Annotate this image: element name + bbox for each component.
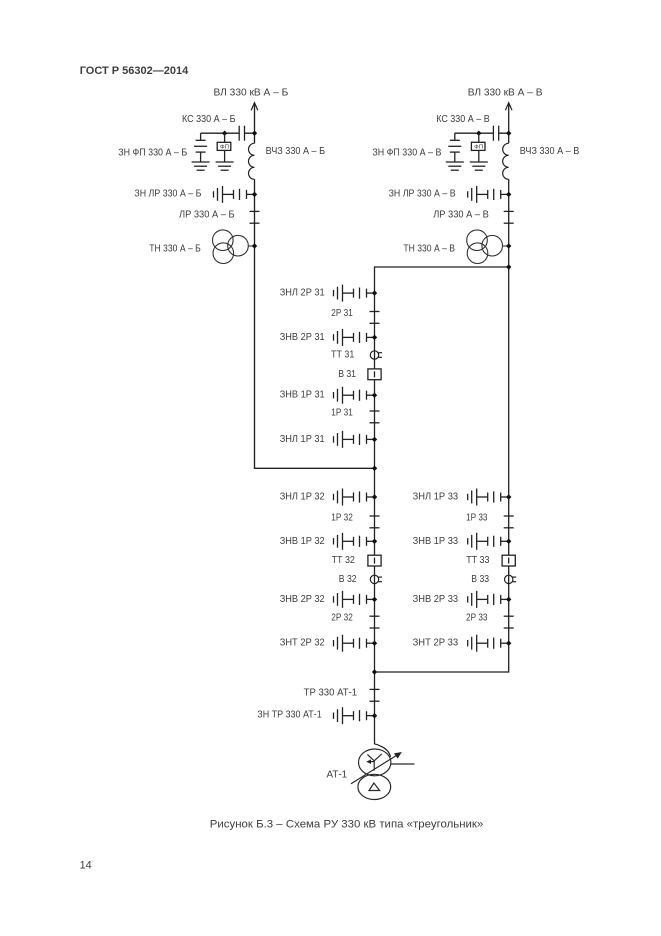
- svg-text:ТР 330 АТ-1: ТР 330 АТ-1: [304, 687, 358, 698]
- inductor ВЧЗ 330 А-Б: [249, 143, 255, 179]
- svg-text:ЗН ФП 330 А – В: ЗН ФП 330 А – В: [372, 147, 441, 158]
- current transformer ТТ 32 box: [368, 555, 381, 566]
- disconnector 1Р 32: [370, 516, 380, 528]
- disconnector 2Р 31: [370, 312, 380, 324]
- svg-text:ЗНВ 1Р 33: ЗНВ 1Р 33: [413, 536, 459, 547]
- node line А-Б top: [252, 131, 257, 136]
- node ЗНВ 2Р 33: [506, 597, 511, 602]
- arrow line А-Б: [251, 103, 258, 111]
- breaker В 33 circle: [505, 575, 517, 583]
- svg-text:1Р 32: 1Р 32: [331, 513, 353, 524]
- node ЗНВ 2Р 32: [372, 597, 377, 602]
- svg-text:В 33: В 33: [471, 574, 489, 585]
- node ЗНВ 1Р 33: [506, 539, 511, 544]
- svg-text:ЛР 330 А – Б: ЛР 330 А – Б: [179, 210, 235, 221]
- svg-text:ВЛ 330 кВ А – Б: ВЛ 330 кВ А – Б: [214, 88, 289, 99]
- capacitor КС 330 А-В branch: [455, 126, 509, 141]
- voltage transformer ТН 330 А-Б: [213, 230, 255, 264]
- arrowhead on regulation diagonal: [394, 752, 402, 759]
- disconnector 2Р 32: [370, 616, 380, 628]
- voltage transformer ТН 330 А-В: [467, 230, 509, 264]
- capacitor КС 330 А-Б branch: [201, 126, 255, 141]
- earthing switch ЗНВ 1Р 31: [334, 387, 375, 404]
- svg-text:ТН 330 А – В: ТН 330 А – В: [403, 244, 455, 255]
- node junction КС А-В: [476, 131, 481, 136]
- node junction bottom bus: [372, 669, 377, 674]
- node ЗНЛ 1Р 31: [372, 437, 377, 442]
- svg-text:14: 14: [80, 860, 92, 872]
- svg-text:Рисунок Б.3 – Схема РУ 330 кВ: Рисунок Б.3 – Схема РУ 330 кВ типа «треу…: [210, 819, 484, 831]
- svg-text:ЗНЛ 1Р 32: ЗНЛ 1Р 32: [280, 492, 325, 503]
- svg-text:ЗНВ 1Р 31: ЗНВ 1Р 31: [280, 390, 325, 401]
- svg-text:ТН 330 А – Б: ТН 330 А – Б: [149, 244, 201, 255]
- svg-text:ВЛ 330 кВ А – В: ВЛ 330 кВ А – В: [468, 88, 543, 99]
- node junction КС А-Б: [222, 131, 227, 136]
- filter box ФП А-В: [471, 133, 485, 162]
- svg-text:ЗНТ 2Р 33: ЗНТ 2Р 33: [413, 638, 459, 649]
- node ТН А-В: [506, 243, 511, 248]
- disconnector 1Р 31: [370, 411, 380, 423]
- node bus top right: [506, 264, 511, 269]
- svg-text:АТ-1: АТ-1: [327, 770, 348, 781]
- svg-text:ВЧЗ 330 А – Б: ВЧЗ 330 А – Б: [266, 146, 326, 157]
- breaker В 31: [368, 369, 381, 380]
- disconnector ЛР 330 А-Б: [250, 211, 260, 223]
- wire: right line ВЛ А-В: [375, 103, 509, 672]
- node ЗН ЛР А-Б: [252, 192, 257, 197]
- svg-text:В 31: В 31: [338, 369, 356, 380]
- earthing switch ЗНЛ 1Р 31: [334, 431, 375, 448]
- svg-text:ЗНВ 2Р 32: ЗНВ 2Р 32: [280, 594, 325, 605]
- svg-text:2Р 32: 2Р 32: [331, 613, 353, 624]
- node ЗНЛ 1Р 33: [506, 494, 511, 499]
- disconnector ЛР 330 А-В: [504, 211, 514, 223]
- capacitor stack ЗН ФП А-Б: [194, 133, 207, 162]
- ground under capacitor stack А-Б: [192, 162, 210, 170]
- current transformer ТТ 31: [370, 351, 382, 359]
- current transformer ТТ 33 box: [502, 555, 515, 566]
- wire: left line ВЛ А-Б: [255, 103, 375, 469]
- earthing switch ЗНТ 2Р 32: [334, 635, 375, 652]
- svg-text:2Р 31: 2Р 31: [331, 308, 353, 319]
- svg-text:ЛР 330 А – В: ЛР 330 А – В: [433, 210, 489, 221]
- earthing switch ЗНТ 2Р 33: [468, 635, 509, 652]
- earthing switch ЗН ТР 330 АТ-1: [334, 707, 375, 724]
- earthing switch ЗНВ 2Р 31: [334, 329, 375, 346]
- svg-text:2Р 33: 2Р 33: [466, 613, 488, 624]
- svg-text:ФП: ФП: [220, 144, 229, 150]
- earthing switch ЗНВ 1Р 32: [334, 533, 375, 550]
- filter box ФП А-Б: [217, 133, 231, 162]
- earthing switch ЗНВ 2Р 32: [334, 591, 375, 608]
- inductor ВЧЗ 330 А-В: [503, 143, 509, 179]
- svg-text:ТТ 33: ТТ 33: [466, 555, 490, 566]
- earthing switch ЗНЛ 1Р 32: [334, 489, 375, 506]
- node ЗНЛ 1Р 32: [372, 494, 377, 499]
- svg-text:ЗНЛ 1Р 33: ЗНЛ 1Р 33: [413, 492, 459, 503]
- svg-text:ЗН ЛР 330 А – В: ЗН ЛР 330 А – В: [389, 188, 456, 199]
- svg-text:ЗНВ 2Р 31: ЗНВ 2Р 31: [280, 332, 325, 343]
- autotransformer АТ-1: [351, 744, 415, 800]
- svg-text:ФП: ФП: [474, 144, 483, 150]
- earthing switch ЗН ЛР 330 А-В: [468, 186, 509, 203]
- wire: middle bus: [375, 267, 509, 744]
- svg-text:ЗНВ 1Р 32: ЗНВ 1Р 32: [280, 536, 325, 547]
- node ТН А-Б: [252, 243, 257, 248]
- svg-text:ЗН ТР 330 АТ-1: ЗН ТР 330 АТ-1: [257, 709, 322, 720]
- svg-text:ТТ 31: ТТ 31: [331, 350, 355, 361]
- svg-text:ЗН ЛР 330 А – Б: ЗН ЛР 330 А – Б: [134, 188, 201, 199]
- node junction left branch joins bus: [372, 466, 377, 471]
- svg-text:ЗНТ 2Р 32: ЗНТ 2Р 32: [280, 638, 325, 649]
- node ЗНВ 2Р 31: [372, 335, 377, 340]
- ground under ФП box А-В: [470, 162, 488, 170]
- capacitor stack ЗН ФП А-В: [448, 133, 461, 162]
- svg-text:ВЧЗ 330 А – В: ВЧЗ 330 А – В: [520, 146, 580, 157]
- node ЗНЛ 2Р 31: [372, 290, 377, 295]
- node ЗН ТР 330 АТ-1: [372, 713, 377, 718]
- svg-text:ЗНЛ 2Р 31: ЗНЛ 2Р 31: [280, 288, 325, 299]
- svg-text:ГОСТ Р 56302—2014: ГОСТ Р 56302—2014: [80, 65, 189, 77]
- disconnector ТР 330 АТ-1: [370, 689, 380, 701]
- svg-text:ТТ 32: ТТ 32: [332, 555, 356, 566]
- svg-text:1Р 33: 1Р 33: [466, 513, 488, 524]
- svg-text:В 32: В 32: [339, 574, 357, 585]
- breaker В 32 circle: [370, 575, 382, 583]
- earthing switch ЗНЛ 1Р 33: [468, 489, 509, 506]
- disconnector 2Р 33: [504, 616, 514, 628]
- node ЗНТ 2Р 32: [372, 641, 377, 646]
- node line А-В top: [506, 131, 511, 136]
- disconnector 1Р 33: [504, 516, 514, 528]
- small arrow in star winding: [366, 759, 371, 764]
- svg-text:ЗН ФП 330 А – Б: ЗН ФП 330 А – Б: [118, 147, 187, 158]
- ground under ФП box А-Б: [216, 162, 234, 170]
- earthing switch ЗНВ 2Р 33: [468, 591, 509, 608]
- earthing switch ЗНВ 1Р 33: [468, 533, 509, 550]
- node ЗНВ 1Р 32: [372, 539, 377, 544]
- node ЗНВ 1Р 31: [372, 393, 377, 398]
- svg-text:КС 330 А – Б: КС 330 А – Б: [182, 114, 236, 125]
- svg-text:1Р 31: 1Р 31: [331, 408, 353, 419]
- arrow line А-В: [505, 103, 512, 111]
- node ЗНТ 2Р 33: [506, 641, 511, 646]
- svg-text:ЗНЛ 1Р 31: ЗНЛ 1Р 31: [280, 434, 325, 445]
- ground under capacitor stack А-В: [446, 162, 464, 170]
- earthing switch ЗНЛ 2Р 31: [334, 285, 375, 302]
- svg-text:КС 330 А – В: КС 330 А – В: [436, 114, 490, 125]
- earthing switch ЗН ЛР 330 А-Б: [214, 186, 255, 203]
- node ЗН ЛР А-В: [506, 192, 511, 197]
- svg-text:ЗНВ 2Р 33: ЗНВ 2Р 33: [413, 594, 459, 605]
